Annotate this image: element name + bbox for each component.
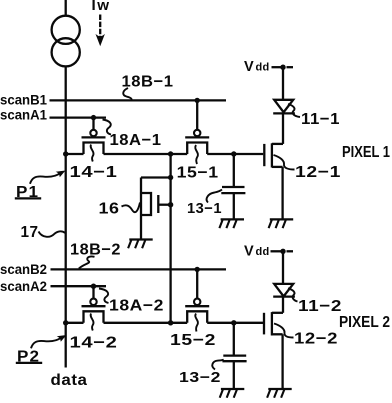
junction dot row1/middle line bbox=[168, 151, 173, 156]
leader 11-1 bbox=[288, 104, 300, 117]
wire data line (vertical, node 17) bbox=[65, 66, 67, 367]
junction dot row2/middle line bbox=[168, 320, 173, 325]
svg-text:scanA1: scanA1 bbox=[0, 107, 47, 122]
leader 18A-2 bbox=[99, 289, 109, 304]
underline P1 bbox=[15, 197, 41, 199]
leader 15-2 bbox=[195, 314, 198, 332]
svg-text:18A−1: 18A−1 bbox=[110, 132, 162, 149]
junction dot scanA2 / 14-2 gate bbox=[91, 284, 96, 289]
svg-text:14−2: 14−2 bbox=[70, 334, 118, 351]
svg-text:dd: dd bbox=[256, 62, 270, 74]
wire Vdd1 lead bbox=[272, 66, 294, 68]
junction dot data/row1 bbox=[63, 151, 68, 156]
transistor 15-1 bbox=[185, 100, 209, 154]
ground for 13-2 bbox=[220, 389, 245, 398]
leader 11-2 bbox=[288, 288, 298, 301]
arrow P2 to data line bbox=[31, 336, 66, 349]
wire Vdd2 lead bbox=[271, 250, 294, 252]
diode 11-2 (light emitting element) bbox=[273, 251, 295, 312]
ground for 16 bbox=[128, 240, 153, 249]
leader 14-1 bbox=[91, 145, 94, 162]
wire scanB1 line 18B-1 bbox=[50, 99, 227, 101]
svg-text:11−1: 11−1 bbox=[301, 111, 340, 128]
leader 13-2 bbox=[212, 360, 223, 370]
junction dot scanA1 / 14-1 gate bbox=[91, 115, 96, 120]
ground for 13-1 bbox=[219, 219, 244, 228]
transistor 14-1 bbox=[82, 118, 106, 154]
svg-text:12−1: 12−1 bbox=[295, 164, 341, 181]
wire data line upper stub bbox=[65, 0, 67, 16]
leader 16 bbox=[122, 203, 141, 213]
wire middle vertical line (16 to pixel2 row) bbox=[169, 154, 171, 323]
leader 13-1 bbox=[207, 190, 222, 203]
svg-text:scanB2: scanB2 bbox=[0, 262, 47, 277]
wire pixel1 row (node between 14-1,15-1,12-1) bbox=[66, 153, 264, 155]
leader 15-1 bbox=[195, 145, 198, 164]
junction dot data/row2 bbox=[63, 320, 68, 325]
svg-text:12−2: 12−2 bbox=[294, 331, 338, 348]
label P1 bbox=[16, 184, 39, 201]
leader 18B-2 bbox=[79, 256, 95, 268]
svg-text:PIXEL 1: PIXEL 1 bbox=[342, 144, 390, 161]
ground for 12-1 bbox=[269, 219, 294, 228]
underline P2 bbox=[16, 362, 42, 364]
leader 12-2 bbox=[274, 324, 294, 338]
leader 18B-1 bbox=[123, 88, 131, 100]
junction dot 16 drain / middle line bbox=[168, 175, 173, 180]
svg-text:V: V bbox=[244, 59, 254, 75]
transistor 14-2 bbox=[82, 286, 106, 323]
wire scanB2 line 18B-2 bbox=[51, 268, 227, 270]
svg-text:PIXEL 2: PIXEL 2 bbox=[339, 314, 390, 331]
svg-text:16: 16 bbox=[99, 200, 120, 217]
leader 14-2 bbox=[91, 314, 94, 331]
leader 12-1 bbox=[274, 155, 295, 170]
svg-text:Iw: Iw bbox=[92, 0, 111, 14]
current source Iw symbol bbox=[52, 16, 80, 67]
svg-text:15−1: 15−1 bbox=[177, 164, 219, 181]
svg-text:14−1: 14−1 bbox=[70, 164, 118, 181]
svg-text:data: data bbox=[51, 372, 88, 389]
label Vdd pixel2 bbox=[244, 244, 270, 260]
svg-text:15−2: 15−2 bbox=[170, 332, 216, 349]
label Vdd pixel1 bbox=[244, 59, 270, 75]
svg-text:18B−1: 18B−1 bbox=[122, 73, 174, 90]
capacitor 13-1 bbox=[221, 154, 245, 219]
svg-text:13−1: 13−1 bbox=[187, 200, 222, 217]
wire scanA1 line 18A-1 bbox=[50, 116, 107, 118]
capacitor 13-2 bbox=[222, 323, 246, 389]
diode 11-1 (light emitting element) bbox=[273, 67, 295, 144]
junction dot 16 gate / middle line bbox=[168, 202, 173, 207]
junction dot row1/capacitor 13-1 bbox=[231, 151, 236, 156]
ground for 12-2 bbox=[267, 389, 292, 398]
svg-text:scanA2: scanA2 bbox=[0, 279, 47, 294]
svg-text:scanB1: scanB1 bbox=[0, 92, 47, 107]
leader 18A-1 bbox=[103, 120, 112, 135]
svg-text:17: 17 bbox=[21, 224, 39, 241]
transistor 16 bbox=[141, 178, 171, 240]
wire scanA2 line 18A-2 bbox=[51, 285, 107, 287]
transistor 12-1 (drive transistor) bbox=[264, 143, 283, 219]
svg-text:18A−2: 18A−2 bbox=[109, 298, 164, 315]
transistor 15-2 bbox=[185, 269, 209, 322]
svg-text:dd: dd bbox=[256, 246, 270, 258]
junction dot Vdd1 bbox=[280, 65, 285, 70]
transistor 12-2 (drive transistor) bbox=[264, 312, 283, 389]
svg-text:V: V bbox=[244, 244, 254, 260]
svg-text:18B−2: 18B−2 bbox=[70, 241, 121, 258]
junction dot Vdd2 bbox=[280, 249, 285, 254]
arrow Iw current direction bbox=[97, 15, 104, 45]
wire pixel2 row (node between 14-2,15-2,12-2) bbox=[66, 322, 263, 324]
junction dot scanB1 / 15-1 gate bbox=[195, 98, 200, 103]
leader 17 bbox=[39, 231, 66, 236]
svg-text:13−2: 13−2 bbox=[179, 369, 221, 386]
label P2 bbox=[17, 349, 40, 366]
arrow P1 to data line bbox=[30, 171, 65, 184]
junction dot row2/capacitor 13-2 bbox=[231, 320, 236, 325]
junction dot scanB2 / 15-2 gate bbox=[195, 267, 200, 272]
svg-text:11−2: 11−2 bbox=[298, 298, 342, 315]
